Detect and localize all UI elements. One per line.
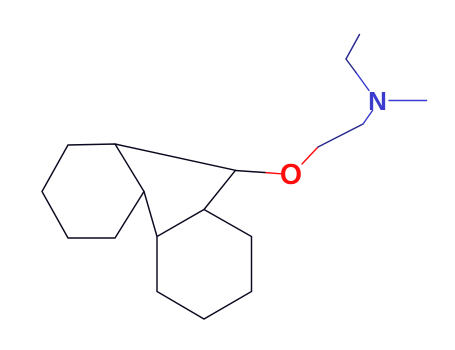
bond C3 to C4 methyl peak (navy) bbox=[346, 35, 360, 60]
ring A benzene (upper-left hexagon) bbox=[42, 144, 144, 238]
wire bond C9 toward O (navy part) bbox=[236, 171, 267, 173]
bond C3 segment (navy upper part) bbox=[346, 59, 356, 73]
wire long bridge bond ring A TR to C9 bbox=[115, 144, 236, 170]
wire biphenyl bond ring A to ring B bbox=[144, 192, 157, 237]
bond N up-left to C3 (blue near N) bbox=[356, 73, 369, 91]
wire bond into O (red part) bbox=[266, 173, 281, 174]
bond N to methyl right (blue) bbox=[389, 100, 427, 102]
svg-text:N: N bbox=[368, 86, 387, 116]
ring B benzene (lower hexagon) bbox=[157, 210, 252, 320]
bond O to C1 (red) bbox=[302, 147, 318, 164]
bond C1 to C2 (navy) bbox=[318, 124, 363, 147]
wire bond C9 to ring B top bbox=[204, 170, 236, 209]
svg-text:O: O bbox=[280, 159, 302, 191]
bond C2 to N (blue) bbox=[363, 111, 373, 125]
